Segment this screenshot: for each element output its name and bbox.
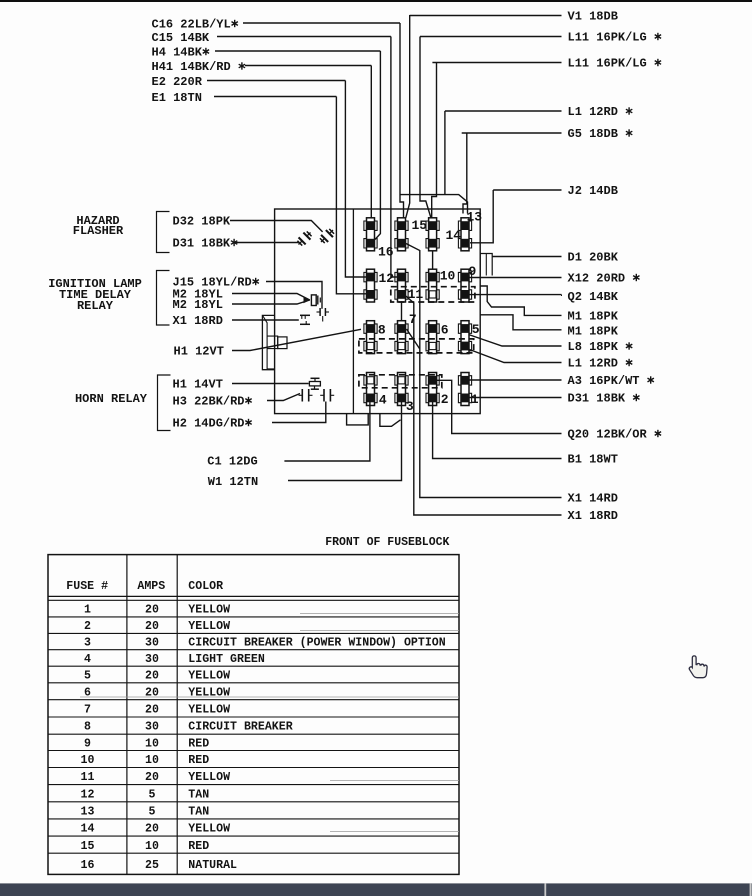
- svg-text:10: 10: [81, 754, 95, 767]
- svg-text:Q2 14BK: Q2 14BK: [568, 290, 619, 304]
- svg-text:15: 15: [81, 840, 95, 853]
- wire C1 to fuse 4: [284, 402, 370, 461]
- svg-text:16: 16: [378, 245, 394, 260]
- svg-text:10: 10: [145, 754, 159, 767]
- wire H4 lead: [215, 50, 380, 52]
- table row rule 5: [48, 682, 459, 684]
- fuse 6: [426, 321, 439, 354]
- svg-text:W1 12TN: W1 12TN: [208, 475, 258, 489]
- wire H3: [267, 394, 300, 401]
- table row rule 15: [48, 852, 459, 854]
- svg-text:9: 9: [84, 738, 91, 751]
- svg-text:B1 18WT: B1 18WT: [568, 453, 618, 467]
- table row rule 11: [48, 784, 459, 786]
- wire H1 14VT: [232, 383, 309, 385]
- svg-text:A3 16PK/WT: A3 16PK/WT: [568, 374, 640, 388]
- wire D31: [235, 242, 299, 244]
- table row rule 3: [48, 649, 459, 651]
- svg-text:L11 16PK/LG: L11 16PK/LG: [568, 57, 647, 71]
- svg-text:16: 16: [81, 859, 95, 872]
- svg-text:13: 13: [467, 210, 483, 225]
- ignition delay capacitor C: [319, 308, 321, 316]
- bracket horn relay: [158, 375, 171, 431]
- top window border bar: [0, 0, 752, 2]
- wire J2 vertical to fuse 13 bottom: [470, 190, 493, 243]
- bottom status bar: [0, 883, 752, 896]
- wire L11 lead: [420, 36, 562, 38]
- wire D32: [230, 221, 323, 232]
- wire Q2 lead: [469, 294, 562, 296]
- svg-text:H41 14BK/RD: H41 14BK/RD: [152, 60, 231, 74]
- status bar divider: [544, 883, 546, 896]
- svg-text:FLASHER: FLASHER: [73, 224, 124, 238]
- svg-text:10: 10: [440, 269, 456, 284]
- fuse 16: [364, 218, 377, 251]
- svg-text:8: 8: [378, 323, 386, 338]
- ignition relay coil U1: [311, 295, 316, 306]
- svg-text:YELLOW: YELLOW: [188, 604, 230, 617]
- svg-text:7: 7: [84, 704, 91, 717]
- svg-text:HORN RELAY: HORN RELAY: [75, 392, 148, 406]
- scan ghost lines: [300, 613, 459, 615]
- wire X1 14RD from fuse 15 bottom: [406, 244, 562, 498]
- svg-text:1: 1: [84, 604, 91, 617]
- table row rule 8: [48, 733, 459, 735]
- fuse block outline: [275, 209, 481, 414]
- fuse 10: [426, 269, 439, 302]
- wire H41 vertical to fuse 16 top: [370, 66, 372, 219]
- table header double rule: [48, 595, 459, 597]
- svg-text:Q20 12BK/OR: Q20 12BK/OR: [568, 428, 648, 442]
- svg-text:11: 11: [408, 287, 424, 302]
- svg-text:RELAY: RELAY: [77, 299, 114, 313]
- svg-text:5: 5: [472, 322, 480, 337]
- table row rule 10: [48, 767, 459, 769]
- table row rule 9: [48, 750, 459, 752]
- table row rule 12: [48, 801, 459, 803]
- wire L8 diagonal: [469, 335, 562, 347]
- wire C16 lead: [243, 22, 400, 24]
- svg-text:20: 20: [145, 620, 159, 633]
- wire H4 vertical to fuse 16 bottom: [375, 51, 380, 240]
- svg-text:30: 30: [145, 637, 159, 650]
- svg-text:H2 14DG/RD: H2 14DG/RD: [173, 417, 245, 431]
- wire L11 vertical to fuse 14 top: [432, 63, 437, 218]
- svg-text:H1 12VT: H1 12VT: [174, 345, 224, 359]
- svg-text:7: 7: [409, 312, 417, 327]
- svg-text:20: 20: [145, 704, 159, 717]
- fuse 1: [458, 373, 471, 406]
- svg-text:RED: RED: [188, 840, 209, 853]
- svg-text:2: 2: [441, 392, 449, 407]
- wire H2: [272, 402, 326, 423]
- svg-text:3: 3: [406, 399, 414, 414]
- svg-text:LIGHT GREEN: LIGHT GREEN: [188, 653, 265, 666]
- dashed group box row4: [359, 375, 442, 388]
- svg-text:G5 18DB: G5 18DB: [568, 127, 618, 141]
- svg-text:YELLOW: YELLOW: [188, 686, 230, 699]
- dashed group box row3: [359, 339, 474, 353]
- wire B1 from fuse 2 bottom: [433, 402, 562, 459]
- svg-text:X1 18RD: X1 18RD: [568, 509, 618, 523]
- connector tab: [267, 336, 278, 349]
- wire J2 lead: [493, 189, 561, 191]
- svg-text:H1 14VT: H1 14VT: [173, 378, 223, 392]
- table row rule 2: [48, 632, 459, 634]
- svg-text:20: 20: [145, 604, 159, 617]
- horn relay contact left: [301, 389, 303, 402]
- wire V1 vertical to fuse 15: [406, 15, 410, 218]
- table row rule 7: [48, 716, 459, 718]
- svg-text:RED: RED: [188, 738, 209, 751]
- horn relay contact right: [323, 389, 325, 402]
- ignition contact X1: [300, 314, 310, 316]
- fuse 4: [364, 373, 377, 406]
- svg-text:C15 14BK: C15 14BK: [152, 31, 210, 45]
- wire bus to fuse 13 (node A): [400, 195, 468, 214]
- svg-text:8: 8: [84, 721, 91, 734]
- svg-text:YELLOW: YELLOW: [188, 670, 230, 683]
- svg-text:D31 18BK: D31 18BK: [173, 237, 231, 251]
- svg-text:D31 18BK: D31 18BK: [568, 392, 626, 406]
- table column line 1: [126, 555, 128, 875]
- svg-text:H4 14BK: H4 14BK: [152, 46, 203, 60]
- wire fuse 7 diagonal: [407, 329, 420, 349]
- svg-text:12: 12: [81, 788, 95, 801]
- svg-text:3: 3: [84, 637, 91, 650]
- wire G5 lead: [462, 132, 562, 134]
- svg-text:E1 18TN: E1 18TN: [152, 91, 202, 105]
- svg-text:25: 25: [145, 859, 159, 872]
- svg-text:C16 22LB/YL: C16 22LB/YL: [152, 18, 231, 32]
- fuse block divider: [352, 209, 354, 414]
- svg-text:11: 11: [81, 771, 95, 784]
- svg-text:COLOR: COLOR: [188, 580, 223, 593]
- svg-text:FRONT OF FUSEBLOCK: FRONT OF FUSEBLOCK: [325, 536, 449, 549]
- svg-text:NATURAL: NATURAL: [188, 859, 237, 872]
- fuse 13: [458, 218, 471, 251]
- horn relay armature: [311, 377, 320, 379]
- fuse 11: [395, 269, 408, 302]
- svg-text:J2 14DB: J2 14DB: [568, 184, 618, 198]
- wire Q20 from fuse 2: [437, 380, 562, 433]
- wire L11 vertical to fuse 14 left: [420, 37, 431, 219]
- svg-text:1: 1: [471, 392, 479, 407]
- table row rule 13: [48, 818, 459, 820]
- table row rule 6: [48, 699, 459, 701]
- svg-text:CIRCUIT BREAKER (POWER WINDOW): CIRCUIT BREAKER (POWER WINDOW) OPTION: [188, 637, 445, 650]
- wire D1 tab: [480, 254, 492, 276]
- svg-text:YELLOW: YELLOW: [188, 823, 230, 836]
- wire A3 lead: [468, 379, 562, 381]
- wire M2 (2): [232, 300, 310, 304]
- svg-text:X12 20RD: X12 20RD: [568, 272, 626, 286]
- svg-text:L1 12RD: L1 12RD: [568, 357, 618, 371]
- wire L1 vertical join: [444, 111, 446, 195]
- wire M2 (1): [232, 294, 310, 301]
- wire C16 vertical to fuse 15: [400, 23, 404, 218]
- svg-text:2: 2: [84, 620, 91, 633]
- svg-text:10: 10: [145, 840, 159, 853]
- fuse 14: [426, 218, 439, 251]
- fuse 9: [458, 269, 471, 302]
- fuse 5: [458, 321, 471, 354]
- svg-text:H3 22BK/RD: H3 22BK/RD: [173, 395, 245, 409]
- table row rule 1: [48, 616, 459, 618]
- svg-text:4: 4: [84, 653, 91, 666]
- hazard flasher contact 1: [295, 229, 314, 248]
- wire G5 vertical to fuse 13: [463, 133, 467, 214]
- svg-text:30: 30: [145, 721, 159, 734]
- mouse hand cursor: [689, 656, 707, 678]
- fuse block bottom tab 1: [347, 414, 369, 425]
- fuse table frame: [48, 555, 459, 875]
- wire M1 lower: [480, 315, 561, 330]
- wire W1 to fuse 3: [288, 402, 402, 481]
- svg-text:X1 14RD: X1 14RD: [568, 492, 618, 506]
- hazard flasher contact 2: [317, 226, 336, 245]
- svg-text:C1 12DG: C1 12DG: [207, 455, 257, 469]
- wire C15 lead: [217, 36, 391, 38]
- wire fuse 14 to fuse 10: [432, 251, 434, 269]
- svg-text:6: 6: [84, 686, 91, 699]
- svg-text:5: 5: [149, 788, 156, 801]
- svg-text:9: 9: [469, 264, 477, 279]
- fuse 3: [395, 373, 408, 406]
- wire H41 lead: [245, 65, 371, 67]
- svg-text:4: 4: [379, 393, 387, 408]
- wire X1 18RD from fuse 11 bottom: [406, 296, 562, 515]
- svg-text:D32 18PK: D32 18PK: [173, 215, 231, 229]
- wire J15: [266, 282, 322, 309]
- svg-text:20: 20: [145, 823, 159, 836]
- svg-text:E2 220R: E2 220R: [152, 75, 203, 89]
- svg-text:14: 14: [81, 823, 95, 836]
- table row rule 14: [48, 835, 459, 837]
- svg-text:10: 10: [145, 738, 159, 751]
- svg-text:12: 12: [379, 271, 395, 286]
- svg-text:X1 18RD: X1 18RD: [173, 314, 223, 328]
- wire E1 lead: [214, 96, 336, 98]
- svg-text:20: 20: [145, 686, 159, 699]
- wire C15 vertical to fuse 11: [391, 37, 397, 278]
- bracket ignition relay: [157, 271, 170, 326]
- wire H1 12VT diagonal to fuse 8: [232, 329, 361, 350]
- wire L1 lead: [445, 110, 562, 112]
- table column line 2: [176, 555, 178, 875]
- svg-text:5: 5: [84, 670, 91, 683]
- svg-text:M1 18PK: M1 18PK: [568, 310, 619, 324]
- connector pin box H1: [278, 337, 287, 349]
- fuse 2: [426, 373, 439, 406]
- svg-text:TAN: TAN: [188, 805, 209, 818]
- svg-text:CIRCUIT BREAKER: CIRCUIT BREAKER: [188, 721, 292, 734]
- svg-text:D1 20BK: D1 20BK: [568, 251, 619, 265]
- svg-text:L8 18PK: L8 18PK: [568, 340, 619, 354]
- svg-text:M2 18YL: M2 18YL: [173, 298, 223, 312]
- wire D1 lead: [492, 256, 561, 258]
- svg-text:TAN: TAN: [188, 788, 209, 801]
- status bar right divider: [750, 883, 752, 896]
- wire fuse 11 to fuse 7: [401, 301, 403, 321]
- svg-text:30: 30: [145, 653, 159, 666]
- svg-text:6: 6: [441, 323, 449, 338]
- svg-text:YELLOW: YELLOW: [188, 620, 230, 633]
- bracket hazard flasher: [157, 212, 170, 253]
- wire E1 vertical to fuse 12 bottom: [336, 97, 366, 294]
- svg-text:YELLOW: YELLOW: [188, 704, 230, 717]
- fuse 12: [364, 269, 377, 302]
- fuse 8: [364, 321, 377, 354]
- svg-text:V1 18DB: V1 18DB: [568, 10, 618, 24]
- svg-text:5: 5: [149, 805, 156, 818]
- svg-text:20: 20: [145, 771, 159, 784]
- svg-text:M1 18PK: M1 18PK: [568, 324, 619, 338]
- svg-text:20: 20: [145, 670, 159, 683]
- svg-text:13: 13: [81, 805, 95, 818]
- wire V1 lead: [410, 15, 562, 17]
- fuse 15: [395, 218, 408, 251]
- connector bracket left: [262, 315, 274, 369]
- wire D31 lead: [469, 397, 562, 399]
- svg-text:L11 16PK/LG: L11 16PK/LG: [568, 31, 647, 45]
- table row rule 4: [48, 665, 459, 667]
- svg-text:15: 15: [412, 218, 428, 233]
- wire L1 diagonal: [470, 350, 562, 363]
- wire X12 lead: [469, 277, 562, 279]
- ignition relay arrowhead: [304, 297, 311, 303]
- fuse block bottom tab 2: [380, 414, 401, 427]
- wire L11 lead: [432, 62, 561, 64]
- svg-text:RED: RED: [188, 754, 209, 767]
- wire X1 left: [232, 319, 299, 321]
- svg-text:AMPS: AMPS: [137, 580, 165, 593]
- wire E2 lead: [207, 80, 345, 82]
- svg-text:L1 12RD: L1 12RD: [568, 105, 618, 119]
- wire E2 vertical to fuse 12 top: [345, 81, 366, 278]
- fuse 7: [395, 321, 408, 354]
- svg-text:FUSE #: FUSE #: [66, 580, 108, 593]
- svg-text:YELLOW: YELLOW: [188, 771, 230, 784]
- dashed group box row2: [391, 287, 475, 302]
- wire M1 upper: [480, 286, 561, 315]
